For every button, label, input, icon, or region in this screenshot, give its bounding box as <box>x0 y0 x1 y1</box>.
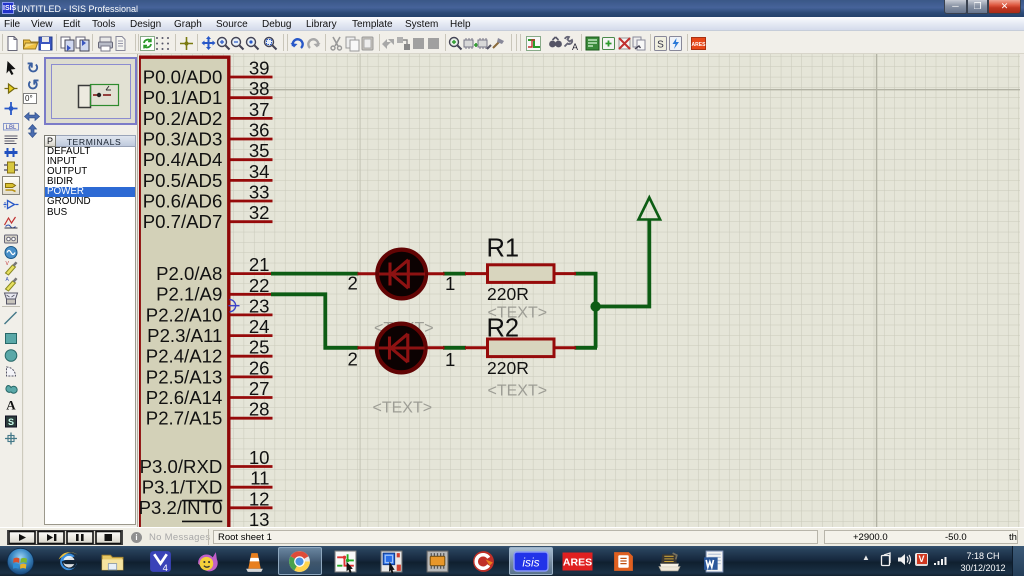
pin P2.4/A12 (25) <box>146 337 273 367</box>
svg-text:R2: R2 <box>487 315 520 343</box>
TERMINALS title <box>58 137 130 147</box>
pin P2.2/A10 (23) <box>146 295 273 325</box>
coordinates field <box>824 530 1018 545</box>
svg-text:P2.2/A10: P2.2/A10 <box>146 304 223 325</box>
grid major line vertical 1 <box>359 54 361 527</box>
object selector header <box>44 135 136 148</box>
svg-text:P2.6/A14: P2.6/A14 <box>146 387 223 408</box>
svg-text:P2.0/A8: P2.0/A8 <box>156 263 222 284</box>
wire D2 to R2 <box>443 346 466 350</box>
pin P3.1/TXD (11) <box>142 468 273 498</box>
svg-text:A: A <box>572 42 578 52</box>
pin P0.5/AD5 (34) <box>143 161 273 191</box>
taskbar icon VLC cone <box>242 549 267 574</box>
preview chip block <box>79 85 91 107</box>
svg-text:S: S <box>8 417 14 427</box>
preview sheet outline <box>52 64 131 118</box>
svg-text:P3.0/RXD: P3.0/RXD <box>140 456 223 477</box>
rotate clockwise icon <box>24 60 42 77</box>
taskbar icon Word <box>702 549 727 574</box>
svg-text:32: 32 <box>249 202 270 223</box>
svg-text:P2.3/A11: P2.3/A11 <box>147 325 222 346</box>
pin P0.0/AD0 (39) <box>143 58 273 88</box>
overview / preview pane <box>44 57 137 125</box>
svg-text:27: 27 <box>249 378 270 399</box>
pin P0.2/AD2 (37) <box>143 99 273 129</box>
grid major line vertical 2 <box>876 54 878 527</box>
LED D2 <box>358 324 445 373</box>
P (pick) button <box>44 135 56 148</box>
svg-text:220R: 220R <box>487 358 529 378</box>
tray speaker icon <box>897 553 912 566</box>
taskbar icon folder <box>100 549 125 574</box>
mirror horizontal icon <box>23 110 41 123</box>
wire D1 to R1 <box>443 272 466 276</box>
svg-text:P0.6/AD6: P0.6/AD6 <box>143 190 223 211</box>
terminals list box <box>44 147 136 525</box>
pin P2.5/A13 (26) <box>146 357 273 387</box>
svg-text:34: 34 <box>249 161 270 182</box>
svg-text:P0.0/AD0: P0.0/AD0 <box>143 66 223 87</box>
show desktop strip <box>1012 546 1024 576</box>
svg-text:P0.7/AD7: P0.7/AD7 <box>143 211 223 232</box>
svg-text:13: 13 <box>249 509 270 527</box>
svg-text:ARES: ARES <box>563 557 592 569</box>
svg-text:<TEXT>: <TEXT> <box>488 383 548 400</box>
svg-text:26: 26 <box>249 357 270 378</box>
pin P2.1/A9 (22) <box>156 275 272 305</box>
svg-text:2: 2 <box>348 349 358 370</box>
wire junction to power terminal <box>596 220 650 307</box>
svg-text:A: A <box>6 398 16 413</box>
sheet field <box>213 530 818 545</box>
svg-text:36: 36 <box>249 120 270 141</box>
svg-text:S: S <box>657 40 664 51</box>
pin P3.0/RXD (10) <box>140 447 273 477</box>
taskbar icon ARES <box>562 552 593 571</box>
side panel <box>24 54 138 527</box>
pin P2.3/A11 (24) <box>147 316 272 346</box>
left tool column <box>0 54 23 527</box>
taskbar icon IE <box>56 549 81 574</box>
taskbar icon Proteus design <box>333 549 358 574</box>
clock date <box>953 563 1013 573</box>
grid major line horizontal <box>139 89 1020 91</box>
taskbar icon chip <box>425 549 450 574</box>
svg-text:22: 22 <box>249 275 270 296</box>
svg-text:4: 4 <box>163 563 168 573</box>
playback controls <box>7 530 123 545</box>
status message text <box>149 532 210 543</box>
tray network bars icon <box>933 554 948 566</box>
svg-text:P2.4/A12: P2.4/A12 <box>146 346 223 367</box>
svg-text:P0.1/AD1: P0.1/AD1 <box>143 87 223 108</box>
taskbar <box>0 546 1024 576</box>
mirror vertical icon <box>26 123 39 139</box>
microcontroller body (8051) <box>139 57 229 527</box>
svg-text:37: 37 <box>249 99 270 120</box>
toolbar <box>0 31 1024 54</box>
chrome active highlight box <box>278 547 322 575</box>
pin P3.2/INT0 (12) <box>139 488 273 518</box>
preview mini schematic marks <box>93 94 111 96</box>
rotation angle box <box>23 93 37 104</box>
wire R2 to vertical <box>575 346 598 350</box>
status bar <box>0 527 1024 546</box>
svg-text:P0.4/AD4: P0.4/AD4 <box>143 149 223 170</box>
svg-text:ARES: ARES <box>692 42 707 48</box>
pin P0.7/AD7 (32) <box>143 202 273 232</box>
svg-text:23: 23 <box>249 295 270 316</box>
rotate anticlockwise icon <box>24 77 42 94</box>
title bar <box>0 0 1024 17</box>
pin P2.7/A15 (28) <box>146 399 273 429</box>
svg-text:P2.1/A9: P2.1/A9 <box>156 284 222 305</box>
svg-text:P0.5/AD5: P0.5/AD5 <box>143 170 223 191</box>
menu bar <box>0 17 1024 31</box>
svg-text:35: 35 <box>249 140 270 161</box>
svg-text:11: 11 <box>250 468 269 489</box>
svg-text:P2.7/A15: P2.7/A15 <box>146 408 223 429</box>
taskbar icon Chrome <box>287 549 312 574</box>
svg-text:P0.3/AD3: P0.3/AD3 <box>143 128 223 149</box>
pin P2.0/A8 (21) <box>156 254 272 284</box>
svg-text:V: V <box>6 261 10 267</box>
tray expand arrow <box>862 553 870 562</box>
svg-text:25: 25 <box>249 337 270 358</box>
svg-text:10: 10 <box>249 447 270 468</box>
status message icon <box>131 532 142 543</box>
pin P0.4/AD4 (35) <box>143 140 273 170</box>
pin P3.3/INT1 (13, clipped) <box>182 509 270 530</box>
resistor R1 <box>465 265 576 283</box>
resistor R2 <box>465 339 576 357</box>
svg-text:LBL: LBL <box>6 124 17 130</box>
LED D1 <box>358 250 445 299</box>
preview viewport green rect <box>91 84 119 105</box>
taskbar icon book <box>657 549 682 574</box>
svg-text:R1: R1 <box>487 235 520 263</box>
taskbar icon messenger smiley <box>195 549 220 574</box>
svg-text:1: 1 <box>445 273 455 294</box>
svg-text:P2.5/A13: P2.5/A13 <box>146 366 223 387</box>
junction node <box>590 301 600 311</box>
svg-text:2: 2 <box>348 273 358 294</box>
clock time <box>953 551 1013 561</box>
wire pin22 to D2 (down-over) <box>271 294 359 348</box>
taskbar icon isis <box>513 551 549 572</box>
taskbar icon PCB tool <box>379 549 404 574</box>
pin P0.6/AD6 (33) <box>143 182 273 212</box>
tray action center icon <box>879 552 894 567</box>
taskbar icon CCleaner <box>471 549 496 574</box>
schematic canvas <box>139 54 1020 527</box>
svg-text:<TEXT>: <TEXT> <box>373 400 433 417</box>
svg-text:39: 39 <box>249 58 270 79</box>
svg-text:12: 12 <box>249 488 270 509</box>
svg-text:220R: 220R <box>487 284 529 304</box>
svg-text:24: 24 <box>249 316 270 337</box>
wire pin21 to D1 <box>271 272 359 276</box>
svg-text:28: 28 <box>249 399 270 420</box>
tray antivirus icon <box>915 553 928 566</box>
svg-text:P0.2/AD2: P0.2/AD2 <box>143 108 223 129</box>
origin marker (blue) on pin 23 <box>229 300 240 312</box>
power terminal <box>639 198 661 220</box>
taskbar icon V4 <box>148 549 173 574</box>
svg-text:A: A <box>6 277 10 283</box>
isis active highlight box <box>509 547 553 575</box>
wire R1 to junction corner <box>575 274 596 348</box>
pin P0.1/AD1 (38) <box>143 78 273 108</box>
svg-text:38: 38 <box>249 78 270 99</box>
svg-text:1: 1 <box>445 349 455 370</box>
taskbar icon document manager <box>611 549 636 574</box>
pin P0.3/AD3 (36) <box>143 120 273 150</box>
svg-text:P3.1/TXD: P3.1/TXD <box>142 477 223 498</box>
start orb <box>6 547 35 576</box>
svg-text:21: 21 <box>249 254 270 275</box>
svg-text:33: 33 <box>249 182 270 203</box>
svg-text:isis: isis <box>522 556 539 570</box>
pin P2.6/A14 (27) <box>146 378 273 408</box>
